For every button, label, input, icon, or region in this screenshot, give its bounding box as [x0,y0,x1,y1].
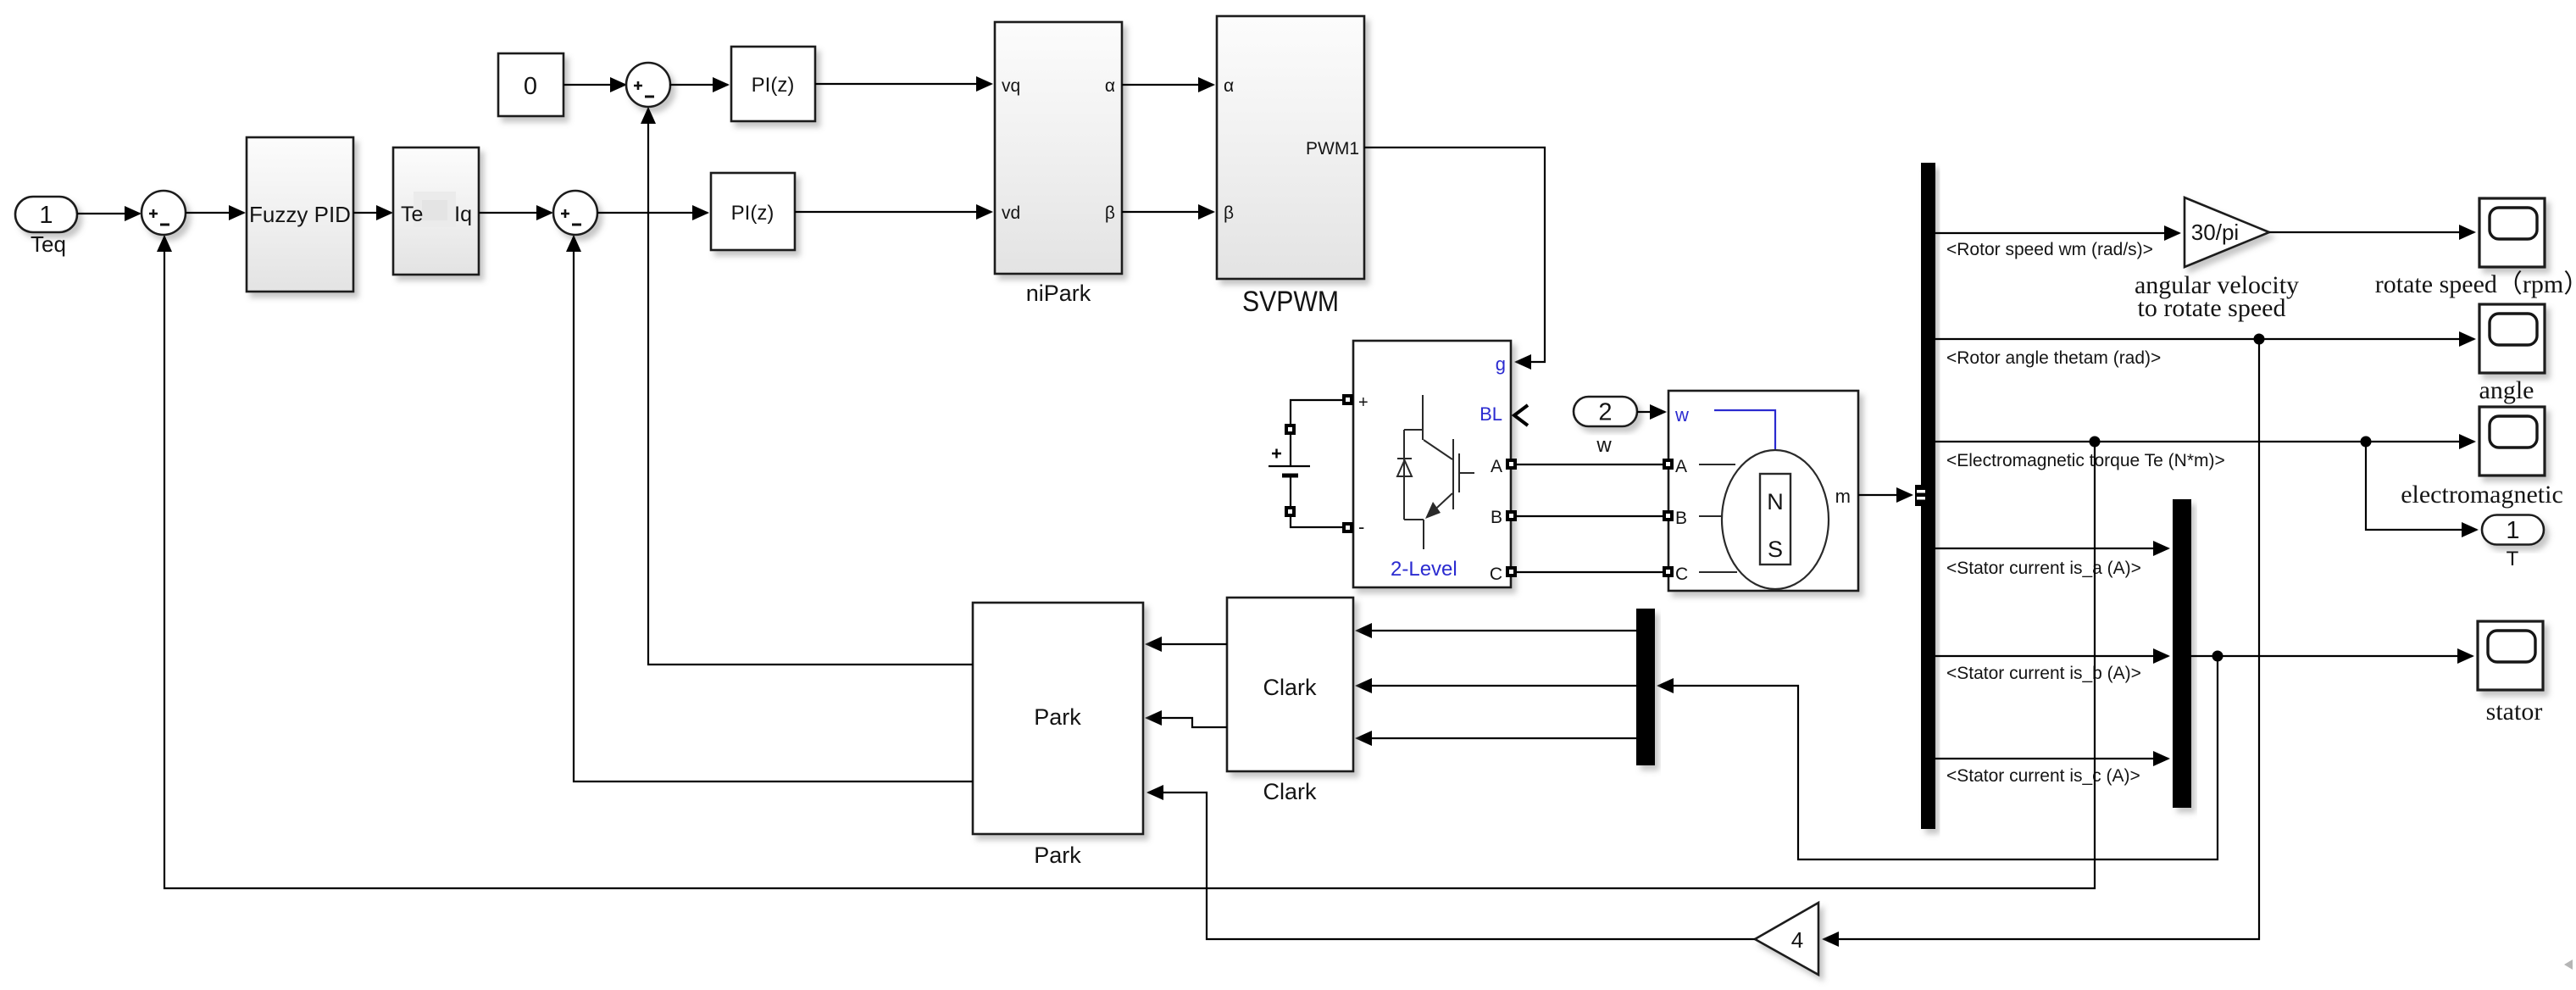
wire gain 4 to Park theta [1148,793,1755,939]
stray cursor mark [2564,959,2573,970]
mux bar Clark input [1636,609,1655,765]
motor A port pad [1663,459,1674,470]
svg-text:4: 4 [1791,927,1803,953]
wire Te-Iq to Sum3 [479,212,552,214]
junction torque feedback [2090,437,2101,448]
block PI(z) lower [711,173,795,250]
scope electromagnetic [2479,407,2545,476]
svg-text:rotate speed（rpm）: rotate speed（rpm） [2375,270,2576,298]
battery bottom pad [1285,506,1296,517]
junction torque to outport [2361,437,2372,448]
wire Clark beta to Park (jog) [1146,718,1227,727]
constant block 0 [498,53,563,116]
sum junction Sum3 [553,191,597,235]
inverter - port pad [1342,522,1353,533]
svg-text:angle: angle [2479,376,2534,404]
block SVPWM [1217,16,1364,279]
inverter A port pad [1506,459,1517,470]
wire niPark beta to SVPWM [1122,211,1213,213]
block niPark (inverse Park transform) [995,22,1122,274]
wire phase C inverter to motor [1517,571,1663,573]
wire Teq to Sum1 [77,213,140,214]
svg-text:A: A [1675,457,1687,476]
wire PI(z) lower to niPark vd [795,211,991,213]
scope angle [2479,304,2545,373]
bus wire stator current is_a [1935,548,2168,549]
wire phase B inverter to motor [1517,515,1663,517]
svg-text:SVPWM: SVPWM [1242,286,1339,318]
wire Sum2 to PI(z) upper [669,84,728,86]
svg-text:<Stator current is_c (A)>: <Stator current is_c (A)> [1946,766,2140,786]
block PI(z) upper [731,47,815,121]
svg-text:electromagnetic: electromagnetic [2401,481,2563,509]
bus wire rotor speed [1935,232,2179,234]
motor rotor circle [1722,450,1829,589]
wire Clark mux out c [1357,737,1636,739]
DC source wiring bottom [1291,476,1342,527]
block Clark transform [1227,598,1353,771]
bus selector bar [1921,163,1935,829]
bus wire stator current is_b [1935,655,2168,657]
svg-text:β: β [1105,203,1115,223]
block PMSM motor [1668,391,1858,591]
svg-text:B: B [1675,509,1687,528]
svg-text:vd: vd [1002,203,1020,223]
wire Park iq out to Sum2 [648,108,973,665]
wire PI(z) upper to niPark vq [815,83,991,85]
inport 1 Teq (oval) [15,197,77,232]
svg-text:<Stator current is_a (A)>: <Stator current is_a (A)> [1946,559,2141,578]
svg-text:Teq: Teq [31,231,66,257]
svg-text:Park: Park [1034,704,1081,730]
junction rotor angle [2254,334,2265,345]
svg-text:C: C [1490,565,1502,584]
inport 2 w (oval) [1574,397,1637,426]
DC source wiring top [1291,400,1342,465]
svg-text:N: N [1767,489,1784,514]
outport 1 T (oval) [2482,515,2544,545]
mux bar stator currents [2173,499,2191,808]
svg-text:Clark: Clark [1263,779,1317,804]
svg-text:B: B [1491,508,1502,527]
svg-text:w: w [1674,404,1689,425]
wire niPark alpha to SVPWM [1122,84,1213,86]
wire stator currents to Clark mux [1658,656,2218,859]
sum junction Sum1 [142,191,186,235]
wire 0 to Sum2 [563,84,625,86]
wire Sum1 to Fuzzy PID [186,212,244,214]
svg-text:niPark: niPark [1026,281,1091,306]
inverter IGBT-diode icon [1397,395,1474,549]
gain 4 (pole pairs) [1755,903,1818,975]
svg-text:<Stator current is_b (A)>: <Stator current is_b (A)> [1946,664,2141,683]
svg-text:BL: BL [1480,403,1502,425]
wire Clark mux out a [1357,630,1636,631]
motor w blue wire [1714,410,1775,451]
junction stator mux output [2212,651,2223,662]
svg-text:S: S [1768,537,1783,562]
motor magnet N-S [1760,474,1790,565]
svg-text:Iq: Iq [454,203,472,226]
battery plus label [1272,449,1281,459]
svg-text:g: g [1496,353,1506,375]
svg-text:PI(z): PI(z) [731,202,774,225]
svg-text:<Electromagnetic torque Te (N*: <Electromagnetic torque Te (N*m)> [1946,451,2225,470]
svg-text:2-Level: 2-Level [1391,558,1457,581]
svg-text:Te: Te [401,203,423,226]
gain 30/pi [2185,197,2269,267]
inverter C port pad [1506,566,1517,577]
wire Clark mux out b [1357,685,1636,687]
motor B port pad [1663,510,1674,521]
scope stator [2478,621,2543,690]
wire Sum3 to PI(z) lower [597,212,708,214]
svg-text:0: 0 [524,73,537,100]
battery plates [1269,465,1310,467]
svg-text:<Rotor speed wm (rad/s)>: <Rotor speed wm (rad/s)> [1946,240,2153,259]
bus wire electromagnetic torque [1935,441,2474,442]
wire inport2 to motor w [1637,411,1665,413]
bus selector input pad [1915,485,1927,506]
svg-text:PWM1: PWM1 [1306,139,1359,159]
svg-text:Clark: Clark [1263,675,1317,700]
svg-text:β: β [1224,203,1234,223]
wire torque feedback to Sum1 [164,236,2095,888]
inverter BL unconnected port chevron [1514,405,1528,425]
svg-text:Park: Park [1034,843,1081,868]
svg-text:to rotate speed: to rotate speed [2138,294,2286,322]
svg-text:vq: vq [1002,76,1020,96]
svg-text:Fuzzy PID: Fuzzy PID [249,202,351,227]
block Te to Iq map [393,147,479,275]
svg-text:T: T [2507,548,2519,570]
svg-text:w: w [1596,434,1612,457]
motor phase stubs [1699,464,1735,465]
wire Park id out to Sum3 [574,236,973,781]
wire phase A inverter to motor [1517,464,1663,465]
svg-text:A: A [1491,457,1502,476]
inverter B port pad [1506,510,1517,521]
svg-text:2: 2 [1598,399,1612,426]
wire torque to outport T [2366,442,2477,530]
sum junction Sum2 [626,63,670,107]
block 2-Level converter [1353,341,1511,587]
wire rotor angle to gain 4 [1824,339,2259,939]
svg-text:1: 1 [2506,517,2519,544]
svg-text:1: 1 [39,202,53,229]
svg-text:α: α [1105,76,1115,96]
svg-text:stator: stator [2486,698,2543,726]
svg-text:α: α [1224,76,1234,96]
motor C port pad [1663,566,1674,577]
svg-text:PI(z): PI(z) [752,74,795,97]
bus wire stator current is_c [1935,758,2168,759]
inverter + port pad [1342,394,1353,405]
block Fuzzy PID [247,137,353,292]
bus wire rotor angle [1935,338,2474,340]
wire PWM1 to inverter gate g [1364,147,1545,362]
svg-text:C: C [1675,565,1688,584]
scope rotate speed [2479,198,2545,267]
battery top pad [1285,424,1296,435]
wire motor m to bus selector [1858,494,1912,496]
wire mux to stator scope [2191,655,2473,657]
wire gain to rotate-speed scope [2269,231,2474,233]
block Park transform [973,603,1143,834]
svg-text:+: + [1358,393,1368,412]
wire Clark alpha to Park [1146,643,1227,645]
svg-text:m: m [1835,486,1851,507]
svg-text:-: - [1358,516,1364,537]
wire Fuzzy PID to Te-Iq map [353,212,391,214]
svg-text:30/pi: 30/pi [2191,220,2239,245]
svg-text:<Rotor angle thetam (rad)>: <Rotor angle thetam (rad)> [1946,348,2161,368]
